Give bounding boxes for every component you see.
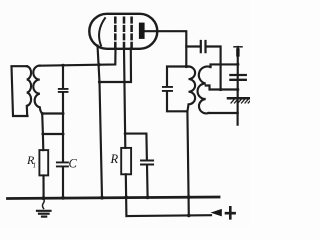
svg-text:1: 1 [33,162,37,170]
svg-text:C: C [69,157,78,171]
svg-text:R: R [110,152,119,166]
